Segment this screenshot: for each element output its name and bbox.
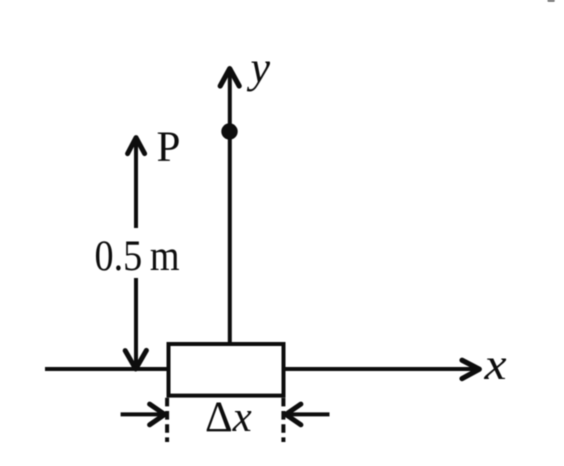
point mass dot on y-axis	[221, 123, 237, 139]
P arrow upper head	[128, 138, 145, 154]
dimension arrow lower shaft	[134, 278, 138, 367]
rectangle block at origin	[169, 344, 284, 396]
y-axis	[228, 70, 232, 344]
svg-text:0.5 m: 0.5 m	[95, 233, 180, 280]
delta-x right arrow shaft	[289, 412, 330, 416]
left dashed extension line	[165, 398, 169, 442]
svg-text:x: x	[483, 341, 506, 390]
svg-text:y: y	[247, 43, 271, 92]
ui artifact top-right gray mark	[548, 0, 555, 2]
x-axis	[45, 367, 474, 371]
P arrow upper shaft	[134, 140, 138, 229]
y-axis arrowhead	[220, 69, 239, 86]
dimension arrow lower head	[125, 350, 146, 369]
svg-text:P: P	[157, 124, 181, 171]
delta-x left arrow shaft	[121, 412, 162, 416]
delta-x right arrowhead (points left)	[286, 404, 301, 425]
svg-text:Δx: Δx	[205, 394, 252, 441]
x-axis label x	[483, 341, 506, 390]
right dashed extension line	[281, 398, 285, 442]
delta-x left arrowhead (points right)	[150, 404, 165, 425]
x-axis arrowhead	[462, 360, 479, 378]
